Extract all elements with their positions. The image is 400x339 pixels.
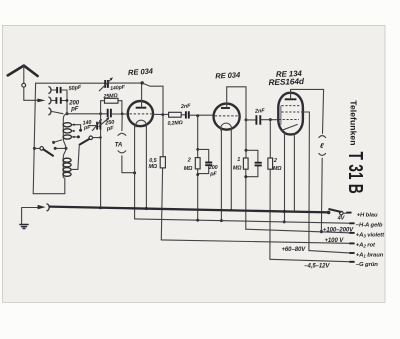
svg-text:MΩ: MΩ (273, 166, 282, 172)
svg-text:+100 V: +100 V (325, 238, 345, 244)
svg-text:–G grün: –G grün (356, 262, 379, 268)
svg-text:+60–80V: +60–80V (282, 247, 307, 253)
svg-text:RE 034: RE 034 (215, 70, 241, 80)
svg-text:pF: pF (106, 126, 115, 133)
svg-text:–4,5–12V: –4,5–12V (304, 264, 330, 270)
svg-text:Telefunken: Telefunken (349, 100, 359, 145)
svg-text:pF: pF (83, 125, 92, 132)
svg-text:pF: pF (70, 107, 79, 113)
svg-text:TA: TA (115, 141, 123, 148)
svg-text:2nF: 2nF (180, 103, 192, 110)
svg-text:MΩ: MΩ (149, 164, 158, 170)
svg-text:200: 200 (208, 165, 218, 171)
svg-text:+A3 violett: +A3 violett (356, 232, 385, 238)
svg-text:pF: pF (209, 172, 217, 178)
svg-text:2: 2 (187, 158, 191, 164)
svg-text:T 31 B: T 31 B (344, 152, 366, 194)
svg-text:+100–200V: +100–200V (323, 227, 354, 233)
svg-text:1: 1 (237, 157, 240, 163)
svg-text:RE 034: RE 034 (128, 66, 154, 77)
svg-text:2nF: 2nF (254, 108, 266, 115)
svg-text:0,2MΩ: 0,2MΩ (167, 120, 183, 127)
svg-text:MΩ: MΩ (184, 166, 193, 172)
svg-text:4V: 4V (337, 216, 346, 222)
svg-text:ℓ: ℓ (320, 141, 324, 150)
svg-text:RES164d: RES164d (268, 76, 305, 87)
svg-text:+A2 rot: +A2 rot (356, 243, 376, 249)
svg-text:+A1 braun: +A1 braun (356, 253, 384, 259)
svg-text:2: 2 (273, 158, 277, 164)
svg-text:+H blau: +H blau (357, 212, 378, 218)
svg-text:MΩ: MΩ (233, 166, 242, 172)
svg-text:–H-A gelb: –H-A gelb (356, 222, 383, 228)
